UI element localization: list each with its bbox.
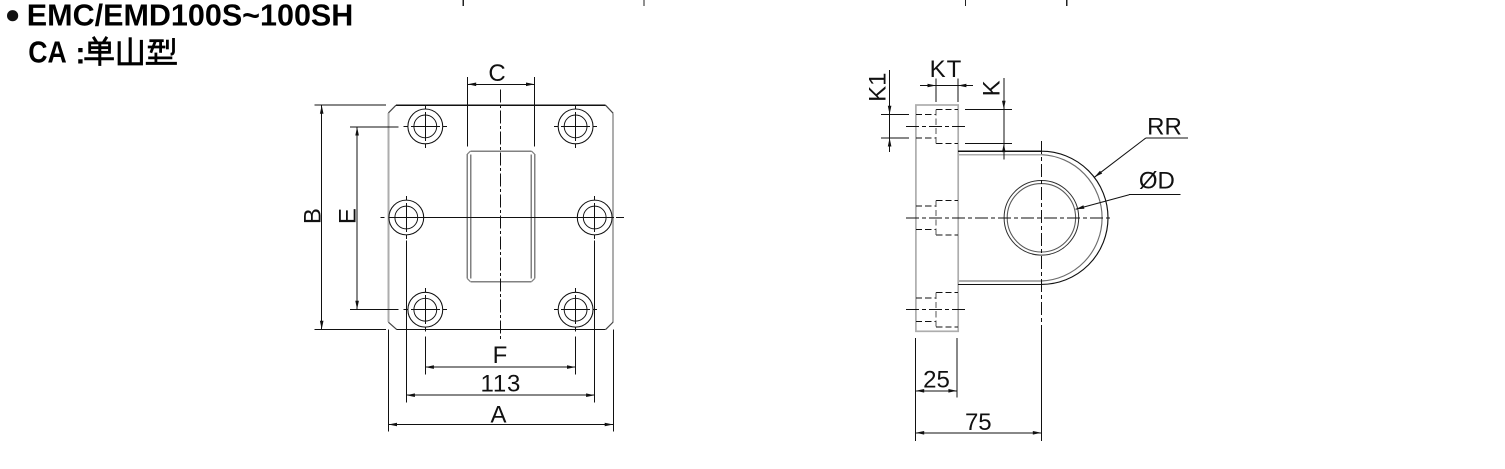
dimension B line with arrows [320, 105, 324, 329]
hanzi DAN (单) [84, 37, 114, 66]
svg-text:25: 25 [923, 366, 950, 393]
hidden row centerline bottom [906, 309, 967, 311]
svg-text:KT: KT [930, 56, 963, 83]
dimension KT line and arrows [920, 84, 973, 88]
dimension K extension lines [965, 109, 1012, 143]
svg-text:A: A [490, 402, 506, 429]
counterbored hole H4 mid-right [577, 196, 612, 239]
svg-text:EMC/EMD100S~100SH: EMC/EMD100S~100SH [27, 0, 354, 33]
svg-text:K1: K1 [864, 73, 891, 102]
svg-text::: : [75, 36, 85, 71]
counterbored hole H1 top-left [404, 105, 447, 148]
dimension KT extension lines [936, 78, 958, 102]
hidden row centerline top [906, 125, 967, 127]
dimension 75 right extension (centerline continuation) [1040, 330, 1042, 441]
top tick 4 [1066, 0, 1068, 6]
counterbored hole H6 bottom-right [554, 288, 597, 331]
hidden counterbore lines middle row [916, 201, 958, 235]
dimension K1 line and arrows [888, 70, 892, 152]
vertical centerline front view [499, 90, 501, 341]
svg-text:75: 75 [965, 409, 992, 436]
dimension F line with arrows [425, 365, 575, 369]
dimension E line with arrows [355, 127, 359, 310]
side view plate rectangle [916, 105, 958, 331]
counterbored hole H3 mid-left [389, 196, 424, 239]
svg-text:CA: CA [28, 36, 67, 70]
dimension A extension lines [388, 330, 613, 432]
svg-text:B: B [299, 208, 326, 224]
svg-text:E: E [335, 208, 362, 224]
dimension 25 extension lines [916, 338, 957, 441]
dimension K line and arrows [1002, 78, 1006, 159]
counterbored hole H5 bottom-left [404, 288, 447, 331]
lug hole horizontal centerline [906, 217, 1113, 219]
dimension C extension lines [468, 77, 535, 147]
dimension 75 line and arrows [916, 431, 1042, 435]
lug hole OD [1004, 181, 1079, 256]
top tick 2 [643, 0, 645, 6]
svg-text:RR: RR [1147, 114, 1182, 141]
top tick 1 [462, 0, 464, 6]
front view plate outline [388, 105, 613, 329]
dimension C line with arrows [468, 83, 535, 87]
dimension 113 line with arrows [406, 393, 594, 397]
svg-text:113: 113 [480, 371, 521, 398]
dimension 113 extension lines [406, 241, 594, 403]
svg-text:ØD: ØD [1139, 168, 1175, 195]
hanzi XING (型) [146, 38, 177, 63]
svg-text:F: F [493, 342, 508, 369]
dimension A line with arrows [388, 423, 613, 427]
svg-text:C: C [488, 60, 505, 87]
leader OD [1076, 195, 1181, 210]
lug hole vertical centerline [1040, 141, 1042, 330]
dimension 25 line and arrows [916, 389, 957, 393]
top tick 3 [965, 0, 967, 6]
dimension E extension lines [350, 127, 399, 310]
central boss (lug seen head-on) [467, 151, 534, 281]
dimension F extension lines [425, 337, 575, 375]
clevis lug profile [958, 151, 1108, 284]
horizontal centerline front view [381, 217, 625, 219]
dimension K1 extension ticks [881, 114, 909, 137]
hidden counterbore lines bottom row [916, 293, 958, 327]
hanzi SHAN (山) [119, 37, 141, 64]
dimension B extension lines [315, 105, 386, 329]
counterbored hole H2 top-right [554, 105, 597, 148]
bullet point [7, 10, 18, 21]
leader RR [1094, 138, 1188, 177]
hidden counterbore lines top row [916, 109, 958, 143]
svg-text:K: K [978, 80, 1005, 96]
